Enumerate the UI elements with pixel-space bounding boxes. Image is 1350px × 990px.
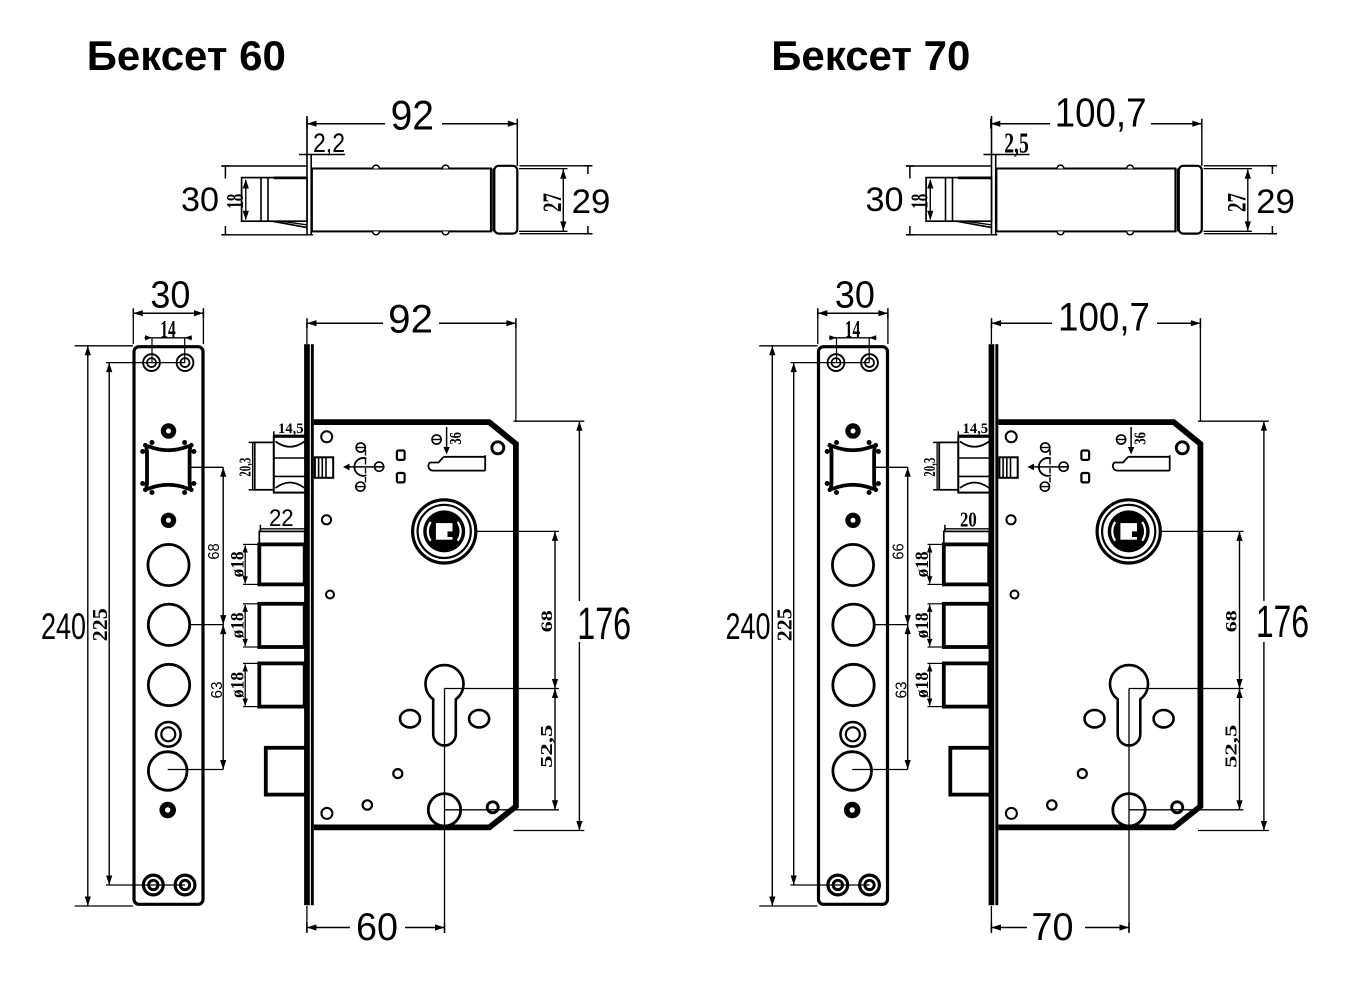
svg-text:29: 29 <box>572 183 611 221</box>
svg-text:100,7: 100,7 <box>1058 296 1150 340</box>
svg-text:14: 14 <box>160 316 176 343</box>
svg-text:68: 68 <box>539 610 556 632</box>
svg-text:18: 18 <box>223 194 249 209</box>
svg-text:68: 68 <box>206 543 223 559</box>
svg-text:63: 63 <box>209 682 226 699</box>
left lock drawing (Bekset 60) <box>75 116 593 933</box>
dimension 70 backset line <box>991 927 1027 929</box>
svg-text:68: 68 <box>1224 610 1241 632</box>
svg-text:ø18: ø18 <box>912 551 933 577</box>
svg-text:225: 225 <box>773 608 797 641</box>
svg-text:30: 30 <box>835 275 875 317</box>
svg-text:22: 22 <box>269 505 294 532</box>
right lock dimension texts <box>726 32 1310 949</box>
svg-text:225: 225 <box>88 608 112 641</box>
svg-text:29: 29 <box>1256 183 1295 221</box>
svg-text:ø18: ø18 <box>228 612 249 638</box>
svg-text:27: 27 <box>1223 193 1252 212</box>
dimension 100,7 top line <box>991 123 1050 125</box>
svg-text:176: 176 <box>577 598 631 649</box>
svg-text:20,3: 20,3 <box>236 458 255 477</box>
svg-text:92: 92 <box>391 92 434 139</box>
right lock drawing (Bekset 70) <box>759 116 1277 933</box>
svg-text:100,7: 100,7 <box>1055 90 1147 136</box>
svg-text:ø18: ø18 <box>228 672 249 698</box>
svg-text:14,5: 14,5 <box>963 421 989 437</box>
dimension 100,7 front line <box>992 322 1053 324</box>
svg-text:2,2: 2,2 <box>313 128 345 158</box>
dimension 60 backset line <box>307 927 350 929</box>
svg-text:176: 176 <box>1256 596 1309 647</box>
svg-text:ø18: ø18 <box>912 672 933 698</box>
svg-text:14: 14 <box>845 316 861 343</box>
svg-text:27: 27 <box>538 193 567 212</box>
svg-text:63: 63 <box>894 682 911 699</box>
svg-text:Бексет 70: Бексет 70 <box>771 32 970 79</box>
svg-text:36: 36 <box>1131 432 1150 445</box>
svg-text:30: 30 <box>181 181 219 219</box>
svg-text:240: 240 <box>726 605 771 647</box>
svg-text:60: 60 <box>356 906 398 949</box>
svg-text:20,3: 20,3 <box>920 458 939 477</box>
svg-text:Бексет 60: Бексет 60 <box>87 32 286 79</box>
svg-text:20: 20 <box>960 508 977 532</box>
left lock dimension texts <box>41 32 631 949</box>
svg-text:30: 30 <box>866 181 904 219</box>
svg-text:2,5: 2,5 <box>1004 129 1029 160</box>
svg-text:36: 36 <box>446 432 465 445</box>
svg-text:92: 92 <box>388 298 433 342</box>
svg-text:66: 66 <box>891 543 908 559</box>
svg-text:14,5: 14,5 <box>278 421 304 437</box>
svg-text:70: 70 <box>1032 906 1074 949</box>
dimension 92 front line <box>307 322 383 324</box>
svg-text:30: 30 <box>150 275 190 317</box>
svg-text:240: 240 <box>41 605 86 647</box>
dimension 92 top line <box>307 123 385 125</box>
svg-text:18: 18 <box>908 194 934 209</box>
svg-text:ø18: ø18 <box>912 612 933 638</box>
svg-text:52,5: 52,5 <box>1222 725 1241 768</box>
svg-text:ø18: ø18 <box>228 551 249 577</box>
svg-text:52,5: 52,5 <box>537 725 556 768</box>
